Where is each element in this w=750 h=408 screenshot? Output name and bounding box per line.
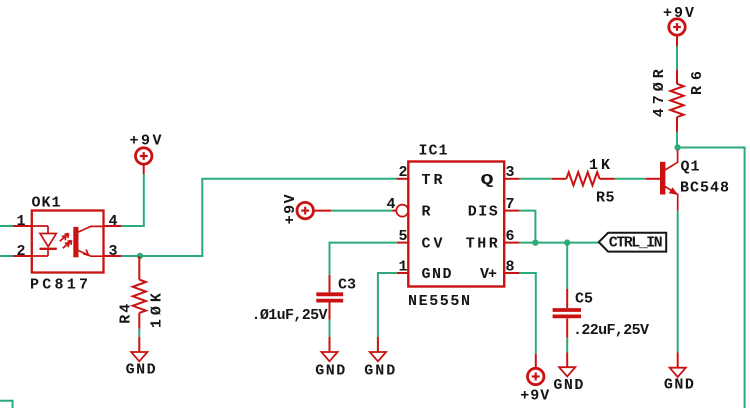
OK1 internal LED xyxy=(40,226,57,256)
wire R5 to Q1 base xyxy=(615,178,647,180)
svg-text:C3: C3 xyxy=(338,276,356,293)
OK1 pin 3 xyxy=(104,255,122,257)
ground symbol below C5 xyxy=(559,353,575,377)
power symbol +9V top right xyxy=(669,19,685,46)
junction node THR/C5 xyxy=(564,239,570,245)
wire bottom left corner xyxy=(0,401,13,408)
svg-text:GND: GND xyxy=(364,362,395,379)
svg-text:Q1: Q1 xyxy=(681,159,700,176)
capacitor C3 xyxy=(316,275,343,320)
R4 value label 10K xyxy=(148,293,165,328)
global label CTRL_IN xyxy=(599,233,666,252)
svg-text:GND: GND xyxy=(422,266,452,283)
svg-text:3: 3 xyxy=(108,243,117,260)
wire R6 to collector junction xyxy=(676,132,678,145)
svg-text:PC817: PC817 xyxy=(30,277,88,294)
svg-text:IC1: IC1 xyxy=(419,142,448,159)
junction node at R4 top xyxy=(137,253,143,259)
wire OK1 pin4 to +9V xyxy=(121,174,144,226)
svg-text:+9V: +9V xyxy=(282,194,299,224)
svg-text:R: R xyxy=(422,204,431,221)
wire +9V to IC1 pin 4 xyxy=(331,210,392,212)
svg-text:+9V: +9V xyxy=(520,388,549,405)
ground symbol below R4 xyxy=(131,337,147,361)
wire C3 to GND xyxy=(329,320,331,338)
resistor R4 xyxy=(133,256,146,329)
ground symbol below Q1 xyxy=(670,353,686,378)
svg-text:GND: GND xyxy=(553,377,583,394)
svg-text:R5: R5 xyxy=(596,189,615,206)
ground symbol below C3 xyxy=(321,337,337,361)
OK1 light arrow upper xyxy=(60,234,69,242)
wire IC1 pin8 to +9V xyxy=(519,273,535,354)
svg-text:Q: Q xyxy=(480,171,493,189)
R4 reference label xyxy=(118,304,135,324)
wire IC1 pin5 to C3 xyxy=(330,243,397,275)
IC1 pin 4 R with inversion circle xyxy=(392,205,408,217)
R6 reference label xyxy=(689,71,706,95)
svg-text:5: 5 xyxy=(398,228,407,245)
IC1 pin 8 V+ xyxy=(504,272,519,274)
wire THR line to CTRL_IN xyxy=(519,242,598,244)
svg-text:CV: CV xyxy=(422,236,443,253)
power symbol +9V above OK1 xyxy=(136,148,152,174)
IC1 pin 6 THR xyxy=(504,242,519,244)
wire IC1 pin3 to R5 xyxy=(519,178,552,180)
wire IC1 pin1 to GND xyxy=(378,273,397,337)
svg-text:1: 1 xyxy=(398,258,407,275)
wire C5 to GND xyxy=(566,338,568,353)
transistor Q1 xyxy=(646,150,678,211)
svg-text:1K: 1K xyxy=(589,157,610,174)
optocoupler OK1 body xyxy=(32,211,104,273)
svg-text:GND: GND xyxy=(126,362,156,379)
svg-text:.Ø1uF,25V: .Ø1uF,25V xyxy=(252,307,328,324)
svg-text:2: 2 xyxy=(398,164,407,181)
resistor R5 xyxy=(552,172,614,185)
IC1 pin 2 TR xyxy=(397,178,409,180)
wire +9V to R6 xyxy=(676,46,678,70)
junction node pin7/THR xyxy=(532,239,538,245)
wire collector junction to right edge and down xyxy=(681,148,745,408)
wire IC1 pin7 to THR node xyxy=(519,211,535,243)
R6 value label 470R xyxy=(651,69,668,117)
IC1 pin 3 Q xyxy=(504,178,519,180)
svg-text:6: 6 xyxy=(505,228,514,245)
svg-text:1: 1 xyxy=(16,213,25,230)
svg-text:47ØR: 47ØR xyxy=(651,69,668,117)
wire left edge to OK1 pin 2 xyxy=(0,255,14,257)
svg-text:V+: V+ xyxy=(480,266,497,283)
power symbol +9V below pin8 xyxy=(528,354,544,385)
svg-text:GND: GND xyxy=(315,362,345,379)
svg-text:TR: TR xyxy=(422,172,443,189)
svg-text:DIS: DIS xyxy=(468,204,498,221)
power symbol +9V at IC1 pin 4 xyxy=(297,202,331,218)
pin 3 name Q xyxy=(480,171,493,189)
svg-text:.22uF,25V: .22uF,25V xyxy=(573,322,649,339)
OK1 light arrow lower xyxy=(63,241,72,249)
svg-text:2: 2 xyxy=(16,243,25,260)
svg-text:NE555N: NE555N xyxy=(408,293,470,310)
svg-text:3: 3 xyxy=(505,164,514,181)
resistor R6 xyxy=(670,70,683,132)
capacitor C5 xyxy=(553,289,581,338)
svg-text:R4: R4 xyxy=(118,304,135,324)
IC1 NE555N body xyxy=(408,162,504,287)
svg-text:+9V: +9V xyxy=(130,133,162,150)
svg-text:CTRL_IN: CTRL_IN xyxy=(609,234,663,251)
wire R4 to GND xyxy=(138,329,140,337)
IC1 pin 5 CV xyxy=(397,242,409,244)
wire left edge to OK1 pin 1 xyxy=(0,225,14,227)
svg-text:4: 4 xyxy=(108,213,117,230)
svg-text:1ØK: 1ØK xyxy=(148,293,165,328)
IC1 pin 7 DIS xyxy=(504,210,519,212)
OK1 pin 2 xyxy=(13,255,48,257)
svg-text:BC548: BC548 xyxy=(680,179,729,196)
wire THR node down to C5 xyxy=(566,243,568,289)
OK1 pin 1 xyxy=(13,225,48,227)
svg-text:THR: THR xyxy=(466,236,498,253)
svg-text:+9V: +9V xyxy=(663,5,694,22)
wire Q1 emitter to GND xyxy=(677,211,679,353)
OK1 pin 4 xyxy=(104,225,122,227)
svg-text:8: 8 xyxy=(505,258,514,275)
svg-text:C5: C5 xyxy=(575,291,593,308)
wire OK1 pin3 to IC1 pin2 xyxy=(121,179,397,256)
ground symbol below IC1 pin1 xyxy=(370,337,386,361)
OK1 phototransistor xyxy=(73,226,103,257)
svg-text:OK1: OK1 xyxy=(32,194,61,211)
IC1 pin 1 GND xyxy=(397,272,409,274)
junction node at Q1 collector xyxy=(674,144,680,150)
+9V vertical label at pin 4 xyxy=(282,194,299,224)
svg-text:R6: R6 xyxy=(689,71,706,95)
svg-text:7: 7 xyxy=(505,196,514,213)
svg-text:GND: GND xyxy=(664,376,694,393)
